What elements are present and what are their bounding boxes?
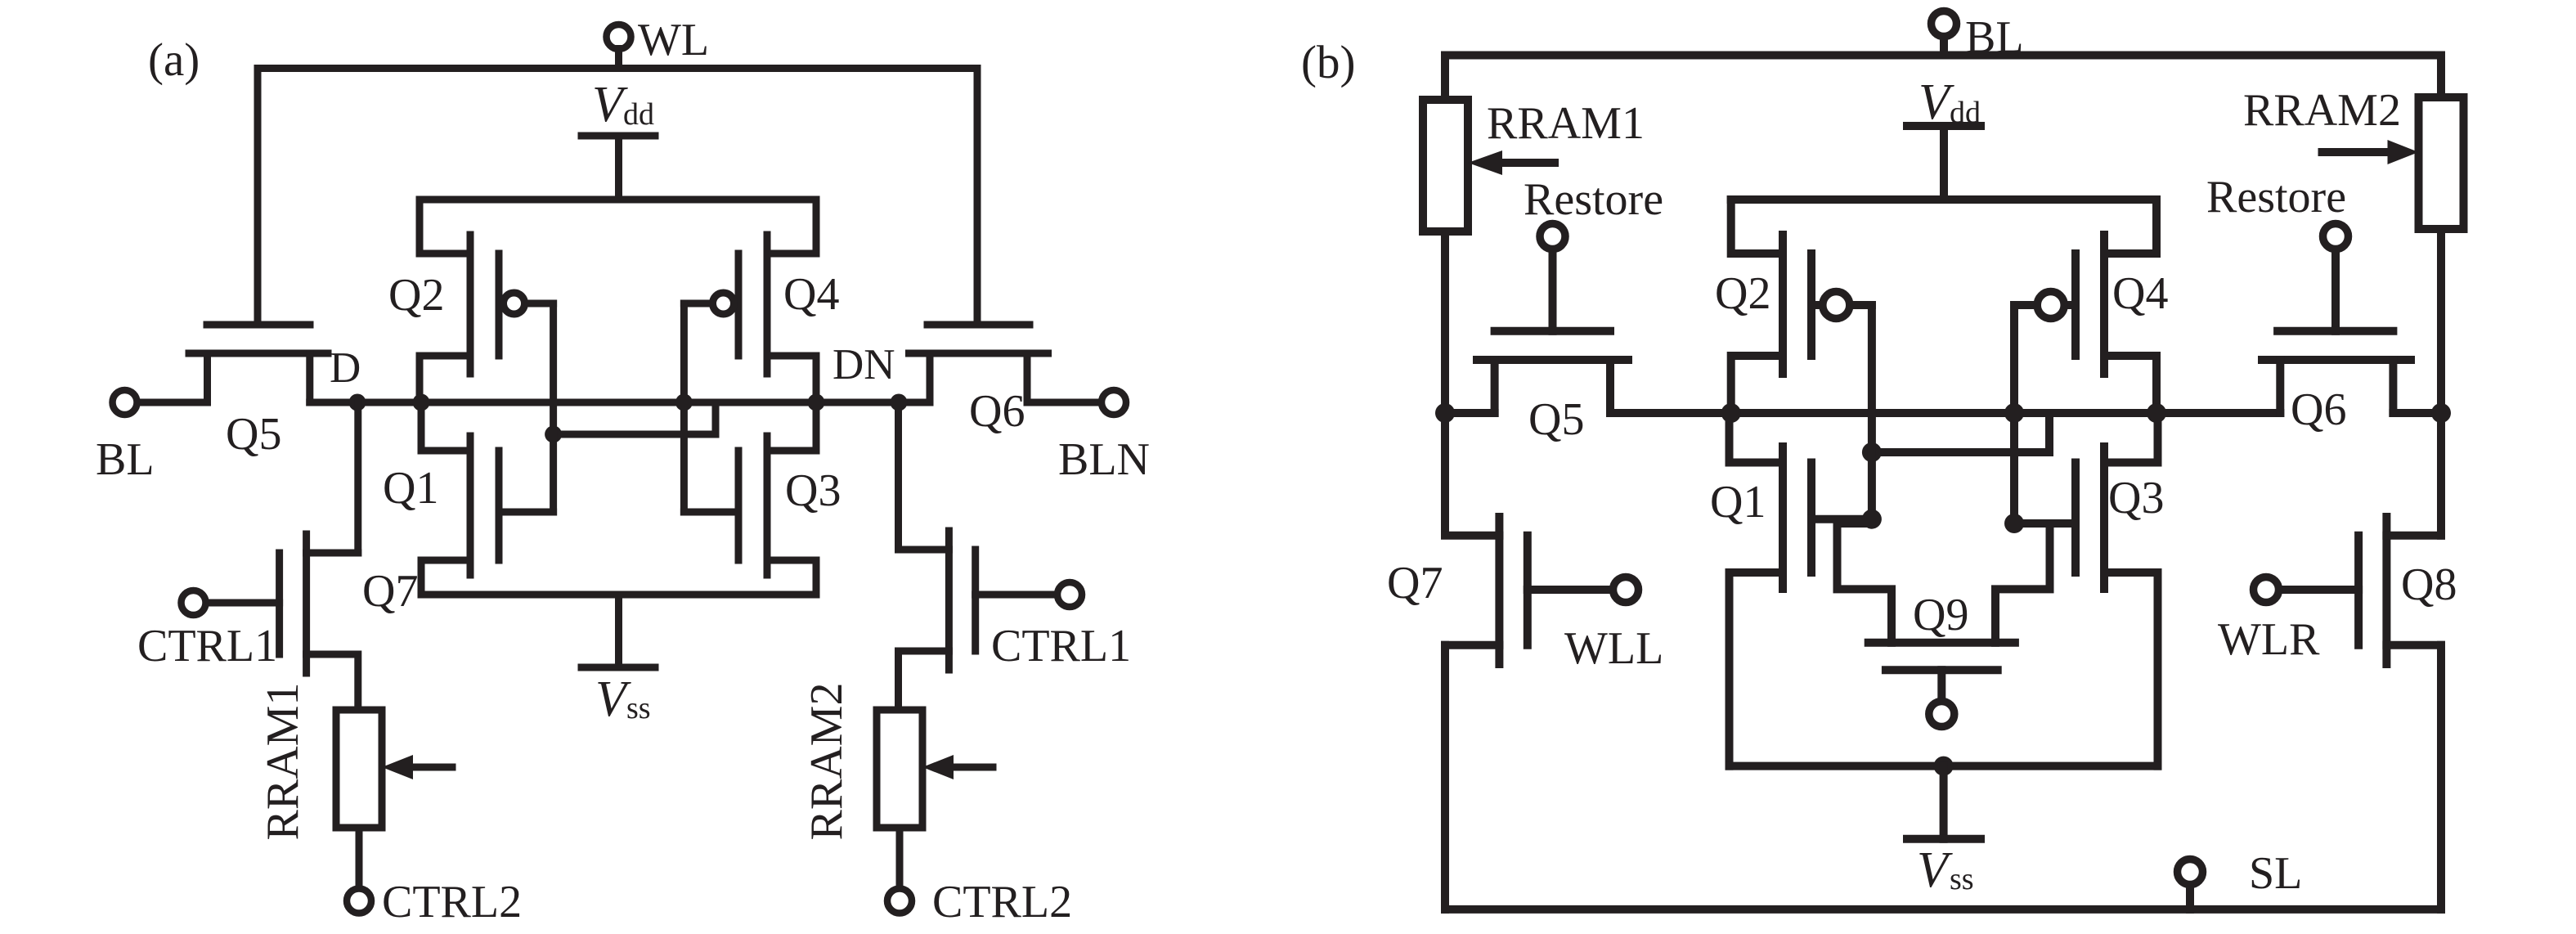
svg-text:Q3: Q3 <box>785 465 841 516</box>
wire Q1 gate <box>499 509 554 516</box>
label Q5 (a) <box>226 409 281 460</box>
wire D down to Q7 <box>354 402 361 553</box>
junction left branch / Q5 (b) <box>1435 403 1455 423</box>
junction Q4 drain (a) <box>808 394 825 411</box>
node D junction <box>349 394 366 411</box>
wire node rail (b) <box>1731 409 2281 417</box>
terminal CTRL2 right <box>887 889 912 914</box>
junction right branch (b) <box>2431 403 2451 423</box>
resistor RRAM2 (b) <box>2419 97 2464 229</box>
subfigure label (b) <box>1301 37 1355 88</box>
wire CTRL1 right wire <box>976 591 1058 599</box>
transistor Q9 (b) <box>1869 643 2015 701</box>
wire Q4 bubble to node D <box>684 303 709 512</box>
svg-text:Q1: Q1 <box>1710 477 1766 528</box>
svg-text:ss: ss <box>626 691 651 725</box>
terminal BLN <box>1102 390 1126 415</box>
label WL <box>638 15 709 65</box>
wire left branch to Q5 (b) <box>1445 409 1495 417</box>
wire RRAM2 down right branch (b) <box>2437 229 2445 536</box>
label Vss (a) <box>595 671 651 727</box>
label Restore right (b) <box>2206 172 2346 222</box>
label Q7 (b) <box>1387 558 1443 608</box>
wire Vss rail (a) <box>421 591 816 599</box>
label Vdd (b) <box>1919 74 1981 130</box>
svg-text:ss: ss <box>1950 862 1974 896</box>
svg-text:CTRL1: CTRL1 <box>137 621 277 671</box>
svg-text:BLN: BLN <box>1058 434 1150 485</box>
svg-text:Q2: Q2 <box>1715 268 1770 319</box>
wire RRAM2 to CTRL2 right <box>896 828 904 889</box>
terminal BL (b) <box>1932 11 1957 56</box>
terminal BL (a) <box>113 390 137 415</box>
label WLR (b) <box>2218 614 2320 665</box>
arrow RRAM2 (b) <box>2322 140 2419 164</box>
label Q3 (b) <box>2108 473 2164 523</box>
svg-text:Q4: Q4 <box>2112 268 2168 319</box>
junction Q1 gate node (b) <box>1862 510 1882 529</box>
wire WL to Q6 gate <box>974 69 981 326</box>
terminal CTRL1 left <box>182 590 206 615</box>
label Q2 (a) <box>388 270 444 321</box>
terminal CTRL1 right <box>1057 582 1082 607</box>
resistor RRAM2 (a) <box>877 710 922 828</box>
ground Vss (a) <box>581 595 655 667</box>
label Q6 (b) <box>2291 384 2346 435</box>
svg-text:(a): (a) <box>148 34 200 86</box>
svg-text:dd: dd <box>623 97 654 132</box>
wire WL to Q5 gate <box>254 69 262 326</box>
transistor Q7 (a) <box>280 534 358 710</box>
label node D <box>330 344 361 392</box>
svg-text:RRAM1: RRAM1 <box>258 683 308 841</box>
svg-text:(b): (b) <box>1301 37 1355 88</box>
svg-text:D: D <box>330 344 361 392</box>
wire DN down to right control transistor <box>895 402 902 550</box>
svg-text:Q1: Q1 <box>383 463 438 514</box>
svg-text:RRAM2: RRAM2 <box>2243 85 2401 136</box>
svg-text:SL: SL <box>2249 848 2302 899</box>
junction Q3/Q4 gate node on D rail <box>675 394 693 411</box>
junction Q3 gate node (b) <box>2004 514 2024 533</box>
svg-text:dd: dd <box>1950 96 1981 130</box>
wire BL top rail (b) <box>1445 52 2441 60</box>
junction Q1/Q2 gate node (a) <box>545 426 562 443</box>
transistor Q5 (a) <box>189 325 328 402</box>
label BL (a) <box>96 434 155 485</box>
transistor Q3 (b) <box>2076 413 2158 766</box>
junction Q4 drain (b) <box>2147 403 2166 423</box>
svg-text:DN: DN <box>832 341 895 388</box>
label CTRL1 right <box>991 621 1131 671</box>
wire DN jog down (b) <box>2045 413 2053 452</box>
svg-text:CTRL2: CTRL2 <box>932 877 1072 927</box>
svg-text:RRAM1: RRAM1 <box>1487 98 1645 149</box>
wire Q5 to node D <box>310 399 357 406</box>
svg-text:Q8: Q8 <box>2401 559 2457 610</box>
label Q4 (b) <box>2112 268 2168 319</box>
terminal CTRL2 left <box>347 889 371 914</box>
transistor Q5 (b) <box>1477 331 1628 413</box>
label Q7 (a) <box>362 566 418 617</box>
label CTRL2 left <box>382 877 522 927</box>
svg-text:CTRL2: CTRL2 <box>382 877 522 927</box>
transistor Q6 (b) <box>2262 331 2411 413</box>
label Vdd (a) <box>592 77 654 132</box>
arrow RRAM2 (a) <box>922 755 993 779</box>
label Vss (b) <box>1917 842 1974 898</box>
wire DN jog down (a) <box>712 402 720 434</box>
label RRAM1 (b) <box>1487 98 1645 149</box>
junction Q2 drain (a) <box>413 394 430 411</box>
wire Vdd rail (a) <box>420 196 816 204</box>
transistor Q8 (b) <box>2358 517 2441 909</box>
terminal SL (b) <box>2178 860 2203 909</box>
transistor control right (a) <box>899 531 976 710</box>
wire top to RRAM2 (b) <box>2437 56 2445 98</box>
svg-text:WLR: WLR <box>2218 614 2320 665</box>
junction Q2 drain (b) <box>1721 403 1741 423</box>
wire Q6 to BLN <box>1027 399 1102 406</box>
label RRAM2 (a) <box>801 683 852 841</box>
transistor Q1 (a) <box>421 402 499 595</box>
svg-text:Q6: Q6 <box>969 386 1025 437</box>
svg-text:Q9: Q9 <box>1913 590 1968 640</box>
svg-text:Q6: Q6 <box>2291 384 2346 435</box>
terminal Restore left (b) <box>1540 224 1565 331</box>
transistor Q2 (a) <box>420 200 525 402</box>
wire WLL (b) <box>1528 586 1612 594</box>
label WLL (b) <box>1564 623 1663 674</box>
wire top to RRAM1 (b) <box>1441 56 1449 101</box>
wire CTRL1 left to Q7 gate <box>205 599 280 607</box>
wire Q6 to right branch (b) <box>2393 409 2441 417</box>
arrow RRAM1 (b) <box>1468 150 1555 175</box>
terminal Restore bottom (b) <box>1929 702 1954 727</box>
wire Q9 left drain stair (b) <box>1838 523 1892 643</box>
svg-text:WLL: WLL <box>1564 623 1663 674</box>
label BL (b) <box>1965 12 2024 63</box>
power Vdd (b) <box>1907 126 1981 200</box>
subfigure label (a) <box>148 34 200 86</box>
label Q3 (a) <box>785 465 841 516</box>
ground Vss (b) <box>1907 766 1981 839</box>
terminal Restore right (b) <box>2323 224 2349 331</box>
junction Vss (b) <box>1934 757 1954 776</box>
svg-text:V: V <box>1917 842 1953 898</box>
wire Q1 gate (b) <box>1811 515 1872 523</box>
label CTRL2 right <box>932 877 1072 927</box>
label Q2 (b) <box>1715 268 1770 319</box>
svg-text:RRAM2: RRAM2 <box>801 683 852 841</box>
wire BL to Q5 <box>136 399 208 406</box>
wire RRAM1 to CTRL2 left <box>356 828 363 889</box>
wire Q2 bubble down (b) <box>1850 305 1872 519</box>
label RRAM1 (a) <box>258 683 308 841</box>
label Q6 (a) <box>969 386 1025 437</box>
resistor RRAM1 (b) <box>1423 100 1468 231</box>
label Restore left (b) <box>1524 174 1663 225</box>
svg-text:WL: WL <box>638 15 709 65</box>
transistor Q3 (a) <box>738 402 816 595</box>
wire bottom rail SL (b) <box>1445 905 2441 914</box>
wire Q5 to latch rail (b) <box>1610 409 1731 417</box>
svg-text:Restore: Restore <box>1524 174 1663 225</box>
arrow RRAM1 (a) <box>382 755 452 779</box>
svg-text:Q5: Q5 <box>226 409 281 460</box>
transistor Q1 (b) <box>1730 413 1812 766</box>
label CTRL1 left <box>137 621 277 671</box>
terminal WLL (b) <box>1613 577 1639 603</box>
wire WLR (b) <box>2280 586 2358 594</box>
svg-text:Restore: Restore <box>2206 172 2346 222</box>
wire Vdd rail (b) <box>1731 195 2156 204</box>
transistor Q4 (b) <box>2037 200 2156 413</box>
transistor Q2 (b) <box>1731 200 1850 413</box>
power Vdd (a) <box>581 136 655 200</box>
label node DN <box>832 341 895 388</box>
label Q8 (b) <box>2401 559 2457 610</box>
terminal WL <box>607 25 631 69</box>
label Q5 (b) <box>1528 394 1584 445</box>
wire Q9 right drain stair (b) <box>1995 523 2050 643</box>
transistor Q6 (a) <box>909 325 1048 402</box>
wire node rail D-DN (a) <box>357 399 930 406</box>
wire Q3 gate <box>684 509 738 516</box>
svg-text:Q3: Q3 <box>2108 473 2164 523</box>
transistor Q7 (b) <box>1445 517 1528 909</box>
svg-text:Q4: Q4 <box>783 269 839 320</box>
transistor Q4 (a) <box>713 200 817 402</box>
label Q9 (b) <box>1913 590 1968 640</box>
svg-text:Q7: Q7 <box>362 566 418 617</box>
label SL (b) <box>2249 848 2302 899</box>
wire RRAM1 down left branch (b) <box>1441 231 1449 535</box>
svg-text:Q5: Q5 <box>1528 394 1584 445</box>
wire Q4 bubble to D (b) <box>2014 305 2037 523</box>
terminal WLR (b) <box>2254 577 2279 603</box>
label Q1 (b) <box>1710 477 1766 528</box>
svg-text:Q7: Q7 <box>1387 558 1443 608</box>
label RRAM2 (b) <box>2243 85 2401 136</box>
label Q1 (a) <box>383 463 438 514</box>
label BLN <box>1058 434 1150 485</box>
resistor RRAM1 (a) <box>336 710 382 828</box>
junction cross wire left (b) <box>1862 442 1882 462</box>
label Q4 (a) <box>783 269 839 320</box>
wire Q2 bubble to cross wire <box>528 303 554 512</box>
junction D / Q4 gate (b) <box>2004 403 2024 423</box>
svg-text:BL: BL <box>96 434 155 485</box>
svg-text:Q2: Q2 <box>388 270 444 321</box>
wire WL horizontal <box>258 65 977 72</box>
wire DN cross to left gates (b) <box>1872 448 2049 456</box>
wire DN cross to Q1/Q2 gates (a) <box>554 431 716 438</box>
wire Q3 gate (b) <box>2014 519 2076 528</box>
wire source loop (b) <box>1730 762 2158 770</box>
svg-text:CTRL1: CTRL1 <box>991 621 1131 671</box>
junction DN (a) <box>891 394 908 411</box>
